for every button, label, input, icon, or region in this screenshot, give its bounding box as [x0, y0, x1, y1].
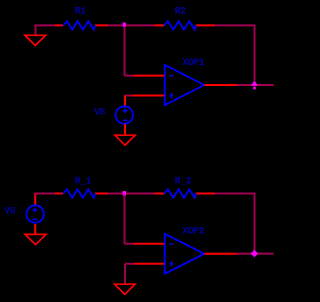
svg-text:VS: VS — [4, 206, 16, 217]
wire R_2 to feedback corner (bottom) — [215, 193, 255, 195]
ground GND4 (below non-inverting input) — [115, 284, 135, 294]
svg-text:R_2: R_2 — [175, 176, 192, 187]
svg-text:XOP2: XOP2 — [182, 227, 205, 238]
ground GND1 (top-left) — [25, 24, 46, 45]
wire node J1 down to inverting input — [125, 26, 134, 75]
pin inverting input XOP1 — [134, 75, 165, 77]
wire node J2 down to inverting input — [125, 195, 134, 244]
pin output XOP2 — [204, 253, 237, 255]
resistor R_2 — [154, 189, 215, 197]
wire feedback vertical — [254, 24, 256, 85]
resistor R2 — [154, 21, 215, 29]
pin non-inverting input XOP1 — [132, 95, 165, 97]
pin inverting input XOP2 — [134, 243, 165, 245]
wire feedback vertical (bottom) — [254, 193, 256, 254]
resistor R1 — [55, 21, 108, 29]
svg-text:R1: R1 — [75, 7, 87, 18]
node marker output (arrow) — [251, 81, 258, 89]
svg-text:R2: R2 — [175, 7, 187, 18]
node marker output (bottom) — [251, 250, 258, 257]
op-amp U1 XOP1 — [165, 65, 204, 105]
wire VS plus to non-inverting input — [125, 95, 132, 97]
ground GND2 (below VS) — [115, 135, 135, 145]
voltage source VS (top) — [116, 106, 133, 123]
pin output XOP1 — [204, 84, 237, 86]
svg-text:XOP1: XOP1 — [182, 58, 205, 69]
node junction J1 — [123, 23, 126, 27]
node junction J2 — [123, 191, 126, 196]
pin non-inverting input XOP2 — [135, 263, 165, 265]
op-amp U2 XOP2 — [165, 234, 204, 274]
pin VS plus terminal — [124, 96, 126, 107]
voltage source VS (bottom) — [27, 205, 44, 222]
wire output net (bottom) — [237, 253, 274, 255]
wire R1 to R2 (node segment) — [108, 24, 154, 26]
wire VSb to R_1 — [34, 193, 55, 195]
wire R_1 to R_2 (node segment) — [108, 193, 154, 195]
wire ground to non-inverting input (bottom) — [125, 264, 135, 284]
wire output net — [237, 84, 274, 86]
svg-text:R_1: R_1 — [75, 176, 92, 187]
wire GND1 to R1 — [35, 24, 56, 26]
pin VSb minus terminal — [34, 224, 36, 234]
wire R2 to feedback corner — [215, 24, 255, 26]
pin VSb plus terminal — [34, 193, 36, 205]
svg-text:VS: VS — [94, 107, 106, 118]
resistor R_1 — [55, 189, 108, 197]
ground GND3 (below bottom VS) — [25, 234, 46, 244]
pin VS minus terminal — [124, 124, 126, 135]
